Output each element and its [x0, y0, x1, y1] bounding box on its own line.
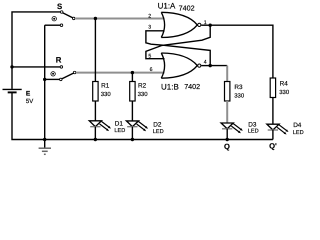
- gate A output bubble: [198, 23, 201, 26]
- gate U1:A (7402 NOR): [161, 12, 197, 37]
- switch S lower contact: [60, 24, 63, 27]
- wire: R2 top lead: [131, 73, 133, 82]
- svg-text:D3: D3: [248, 121, 257, 128]
- svg-text:S: S: [57, 2, 62, 11]
- node: ground column / R lower contact: [43, 78, 46, 81]
- svg-text:330: 330: [234, 92, 245, 99]
- switch S moving contact: [72, 17, 75, 20]
- svg-text:LED: LED: [248, 129, 259, 135]
- gate B output bubble: [198, 64, 201, 67]
- svg-text:7402: 7402: [184, 82, 200, 91]
- wire: gate A output stub: [201, 24, 210, 26]
- wire: R2 to D2: [131, 101, 133, 121]
- node: gate A output junction: [209, 24, 212, 27]
- resistor R1: [93, 82, 98, 102]
- wire: S to gate A input 2 (gray): [75, 18, 165, 20]
- wire: battery negative to bottom rail: [12, 93, 273, 140]
- svg-text:R1: R1: [101, 82, 110, 89]
- node: rail/R junction: [10, 65, 13, 68]
- svg-text:D2: D2: [153, 121, 162, 128]
- svg-text:U1:B: U1:B: [161, 83, 179, 92]
- LED D2: [126, 121, 148, 140]
- wire: battery + rail top wire to switch S: [12, 12, 60, 89]
- wire: gate A output to R4 column: [210, 25, 273, 78]
- battery E plates: [3, 89, 22, 92]
- wire: R to gate B input 6 (gray): [76, 72, 165, 74]
- switch R key symbol: [51, 72, 55, 76]
- svg-text:D1: D1: [115, 121, 124, 128]
- wire: R1 to D1: [94, 101, 96, 121]
- switch R lower contact: [60, 78, 63, 81]
- svg-text:7402: 7402: [179, 4, 195, 13]
- wire: gate B output to R3 column (black part): [210, 65, 227, 67]
- svg-text:Q: Q: [224, 142, 230, 151]
- wire: ground column vertical: [44, 25, 46, 139]
- wire: rail to switch R top contact: [12, 66, 60, 68]
- svg-text:D4: D4: [293, 122, 302, 129]
- wire: feedback B.4 to A.3: [146, 31, 210, 66]
- svg-text:LED: LED: [114, 128, 125, 134]
- LED D3: [221, 123, 243, 140]
- node: S wire / R1 junction: [94, 17, 97, 20]
- svg-text:330: 330: [138, 91, 149, 98]
- switch S key symbol: [52, 17, 56, 21]
- switch R blade: [62, 73, 74, 79]
- LED D1: [89, 121, 111, 140]
- resistor R3: [225, 82, 230, 102]
- switch R moving contact: [73, 71, 76, 74]
- svg-text:R2: R2: [138, 82, 147, 89]
- node: D2 / rail: [131, 138, 134, 141]
- svg-text:6: 6: [150, 67, 153, 73]
- ground: [39, 140, 51, 155]
- svg-text:R3: R3: [234, 84, 243, 91]
- svg-text:R: R: [56, 55, 62, 64]
- svg-text:Q': Q': [269, 142, 277, 151]
- node: D3 / rail (Q node): [226, 138, 229, 141]
- switch R top contact: [60, 66, 63, 69]
- wire: R3 top lead (gray): [226, 66, 228, 82]
- svg-text:5V: 5V: [26, 98, 33, 105]
- wire: R lower contact to ground column: [45, 78, 60, 80]
- svg-text:U1:A: U1:A: [158, 1, 176, 10]
- svg-text:3: 3: [148, 25, 151, 31]
- node: R wire / R2 junction: [131, 71, 134, 74]
- LED D4: [267, 124, 289, 139]
- node: ground column / bottom rail: [43, 138, 46, 141]
- resistor R2: [130, 82, 135, 102]
- wire: S lower contact to ground column: [45, 24, 60, 26]
- svg-text:330: 330: [101, 91, 112, 98]
- svg-text:LED: LED: [293, 130, 304, 136]
- wire: R1 top lead: [94, 19, 96, 82]
- svg-text:LED: LED: [153, 129, 164, 135]
- svg-text:E: E: [26, 90, 31, 97]
- wire: gate B output stub: [201, 65, 210, 67]
- wire: R4 to D4: [272, 98, 274, 125]
- node: gate B output junction: [209, 64, 212, 67]
- switch S top contact: [60, 11, 63, 14]
- svg-text:2: 2: [148, 13, 151, 19]
- switch S blade: [63, 13, 73, 18]
- svg-text:R4: R4: [280, 80, 289, 87]
- resistor R4: [270, 78, 275, 98]
- node: D1 / rail: [94, 138, 97, 141]
- svg-text:4: 4: [204, 60, 207, 66]
- wire: feedback A.1 to B.5: [146, 25, 210, 59]
- svg-text:330: 330: [279, 89, 290, 96]
- svg-text:1: 1: [204, 20, 207, 26]
- wire: R3 to D3 (gray): [226, 101, 228, 123]
- gate U1:B (7402 NOR): [161, 53, 197, 78]
